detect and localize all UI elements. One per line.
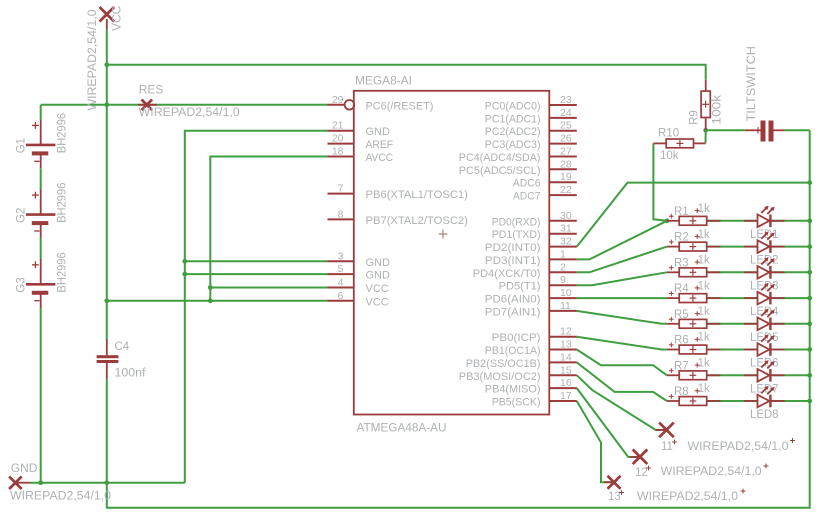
LED LED6 (744, 334, 785, 356)
wire R10 left to R1 node (653, 143, 667, 220)
svg-text:G3: G3 (16, 277, 28, 292)
wire R8 to LED8 (707, 400, 758, 402)
wire R3 to LED3 (707, 271, 758, 273)
svg-text:PD7(AIN1): PD7(AIN1) (485, 306, 541, 318)
svg-text:100k: 100k (712, 95, 724, 125)
wire AVCC riser (210, 157, 327, 301)
wire battery top drop (40, 105, 42, 120)
svg-text:GND: GND (366, 126, 391, 138)
svg-text:WIREPAD2,54/1,0: WIREPAD2,54/1,0 (139, 107, 240, 119)
wire PD3 to R1 (577, 221, 667, 260)
svg-text:WIREPAD2,54/1,0: WIREPAD2,54/1,0 (688, 441, 789, 453)
IC U1 right pin numbers (560, 94, 572, 402)
wire VCC vertical from pad to C4 (106, 30, 108, 339)
wire PB2 to R8 (577, 362, 667, 401)
svg-text:ATMEGA48A-AU: ATMEGA48A-AU (357, 423, 447, 435)
resistor R9 100k (701, 80, 710, 131)
IC U1 right pin stubs (549, 105, 577, 401)
IC U1 left pin numbers (332, 94, 344, 302)
svg-text:13: 13 (608, 491, 621, 503)
svg-text:AVCC: AVCC (366, 152, 394, 164)
wire pin 6 VCC horizontal (107, 300, 328, 302)
junction (104, 298, 109, 303)
svg-text:PB3(MOSI/OC2): PB3(MOSI/OC2) (459, 371, 541, 383)
resistor R5 1k (667, 319, 721, 328)
wire R2 to LED2 (707, 246, 758, 248)
svg-text:1k: 1k (698, 203, 710, 215)
svg-text:PC1(ADC1): PC1(ADC1) (485, 113, 541, 125)
junction (807, 321, 812, 326)
resistor R2 1k (667, 242, 721, 251)
svg-text:LED8: LED8 (750, 409, 779, 421)
svg-text:BH2996: BH2996 (57, 113, 69, 153)
svg-text:1k: 1k (698, 358, 710, 370)
svg-text:1k: 1k (698, 229, 710, 241)
svg-text:MEGA8-AI: MEGA8-AI (355, 76, 412, 88)
svg-text:20: 20 (332, 133, 344, 145)
wire PB4 to pad 12 (577, 388, 640, 457)
svg-text:PB1(OC1A): PB1(OC1A) (485, 345, 541, 357)
svg-text:C4: C4 (115, 341, 130, 353)
svg-text:WIREPAD2,54/1,0: WIREPAD2,54/1,0 (637, 491, 738, 503)
resistor R8 1k (667, 397, 721, 406)
svg-text:PD2(INT0): PD2(INT0) (485, 242, 541, 254)
svg-text:7: 7 (338, 183, 344, 195)
wire RES / reset net (41, 104, 328, 106)
svg-text:1k: 1k (698, 280, 710, 292)
svg-text:R4: R4 (674, 283, 689, 295)
wire tilt switch right (785, 129, 810, 131)
svg-text:32: 32 (560, 236, 572, 248)
svg-text:28: 28 (560, 158, 572, 170)
svg-text:14: 14 (560, 351, 572, 363)
junction (807, 373, 812, 378)
wire pin 4 VCC (210, 287, 327, 289)
wire LED8 to bus (771, 400, 809, 402)
svg-text:R2: R2 (674, 232, 689, 244)
svg-text:WIREPAD2,54/1,0: WIREPAD2,54/1,0 (661, 466, 762, 478)
wire pin 5 GND (185, 273, 328, 275)
svg-text:VCC: VCC (366, 296, 389, 308)
svg-text:PB2(SS/OC1B): PB2(SS/OC1B) (466, 358, 541, 370)
LED LED5 (744, 309, 785, 331)
junction (104, 480, 109, 485)
wire tilt switch left (706, 129, 745, 131)
svg-text:18: 18 (332, 146, 344, 158)
resistor R10 10k (653, 139, 705, 148)
wire R5 to LED5 (707, 323, 758, 325)
junction (665, 218, 670, 223)
junction (208, 285, 213, 290)
wirepad RES (138, 100, 157, 111)
wire PB1 to R7 (577, 350, 667, 376)
LED LED1 (744, 206, 785, 228)
junction (703, 128, 708, 133)
svg-text:1k: 1k (698, 306, 710, 318)
svg-text:PC3(ADC3): PC3(ADC3) (485, 139, 541, 151)
svg-text:GND: GND (11, 461, 38, 475)
IC U1 left pin stubs (328, 100, 355, 301)
svg-text:VCC: VCC (110, 5, 124, 31)
svg-text:PD1(TXD): PD1(TXD) (492, 229, 541, 241)
wire PB0 to R6 (577, 337, 667, 350)
wire LED1 to bus (771, 220, 809, 222)
junction (104, 62, 109, 67)
svg-text:6: 6 (338, 290, 344, 302)
resistor R4 1k (667, 294, 721, 303)
wirepad GND (9, 476, 30, 489)
battery G1 BH2996 (26, 120, 56, 169)
svg-text:ADC6: ADC6 (513, 178, 541, 190)
svg-text:8: 8 (338, 208, 344, 220)
svg-text:13: 13 (560, 339, 572, 351)
svg-text:G2: G2 (16, 208, 28, 223)
svg-text:19: 19 (560, 171, 572, 183)
svg-text:5: 5 (338, 263, 344, 275)
wire VCC top rail (107, 65, 706, 80)
svg-text:WIREPAD2,54/1,0: WIREPAD2,54/1,0 (10, 491, 111, 503)
LED LED8 (744, 386, 785, 408)
svg-text:RES: RES (139, 83, 164, 97)
svg-text:R10: R10 (658, 128, 679, 140)
wirepad 11 (656, 423, 674, 438)
wire LED7 to bus (771, 374, 809, 376)
wire LED2 to bus (771, 246, 809, 248)
svg-text:R9: R9 (689, 110, 701, 125)
wire LED4 to bus (771, 297, 809, 299)
svg-text:R7: R7 (674, 360, 689, 372)
svg-text:27: 27 (560, 146, 572, 158)
svg-text:R3: R3 (674, 257, 689, 269)
svg-text:G1: G1 (16, 138, 28, 153)
wire LED3 to bus (771, 271, 809, 273)
svg-text:25: 25 (560, 120, 572, 132)
svg-text:PD4(XCK/T0): PD4(XCK/T0) (473, 268, 541, 280)
wire LED5 to bus (771, 323, 809, 325)
svg-text:1k: 1k (698, 255, 710, 267)
IC U1 left pin names (366, 100, 468, 308)
resistor R1 1k (667, 216, 721, 225)
svg-text:R1: R1 (674, 206, 689, 218)
junction (208, 298, 213, 303)
junction (807, 399, 812, 404)
svg-text:10k: 10k (660, 150, 679, 162)
LED LED7 (744, 360, 785, 382)
svg-text:11: 11 (661, 441, 673, 453)
svg-text:100nf: 100nf (115, 368, 147, 380)
wirepad 12 (630, 450, 647, 465)
IC U1 ATMEGA48A-AU box (354, 91, 550, 415)
svg-text:AREF: AREF (366, 139, 394, 151)
svg-text:9: 9 (560, 274, 566, 286)
svg-text:PD0(RXD): PD0(RXD) (492, 216, 541, 228)
svg-text:PC5(ADC5/SCL): PC5(ADC5/SCL) (459, 165, 541, 177)
wire PD7 to R5 (577, 311, 667, 324)
svg-text:PB0(ICP): PB0(ICP) (492, 332, 541, 344)
IC U1 right pin names (459, 101, 541, 409)
wire GND bottom horizontal (30, 482, 185, 484)
wire INT0 net y182 (577, 183, 810, 247)
wire R6 to LED6 (707, 349, 758, 351)
wire PD6 to R4 (577, 297, 667, 299)
svg-text:2: 2 (560, 261, 566, 273)
junction (38, 480, 43, 485)
svg-text:4: 4 (338, 277, 344, 289)
svg-text:PB5(SCK): PB5(SCK) (492, 397, 541, 409)
resistor R3 1k (667, 268, 721, 277)
tilt switch TILTSWITCH (745, 121, 785, 142)
wire PB3 to pad 11 (577, 375, 667, 430)
svg-text:PC2(ADC2): PC2(ADC2) (485, 126, 541, 138)
svg-text:1k: 1k (698, 383, 710, 395)
junction (182, 272, 187, 277)
svg-text:PC4(ADC4/SDA): PC4(ADC4/SDA) (459, 152, 541, 164)
svg-text:VCC: VCC (366, 283, 389, 295)
svg-text:PB6(XTAL1/TOSC1): PB6(XTAL1/TOSC1) (366, 189, 468, 201)
LED LED2 (744, 231, 785, 253)
capacitor C4 (97, 339, 119, 379)
wire R10 right riser (705, 130, 707, 143)
battery G3 BH2996 (26, 259, 56, 308)
resistor R7 1k (667, 371, 721, 380)
svg-text:12: 12 (560, 326, 572, 338)
junction (807, 296, 812, 301)
svg-text:WIREPAD2,54/1,0: WIREPAD2,54/1,0 (87, 10, 99, 111)
svg-text:PB7(XTAL2/TOSC2): PB7(XTAL2/TOSC2) (366, 215, 468, 227)
svg-text:PD6(AIN0): PD6(AIN0) (485, 294, 541, 306)
wire battery bottom to GND rail (40, 308, 42, 483)
svg-text:30: 30 (560, 210, 572, 222)
svg-text:10: 10 (560, 287, 572, 299)
svg-text:16: 16 (560, 377, 572, 389)
svg-text:22: 22 (560, 184, 572, 196)
wire PB5 to pad 13 (577, 401, 614, 482)
wire bottom GND bus (107, 130, 810, 508)
svg-text:PC6(/RESET): PC6(/RESET) (366, 100, 434, 112)
wire PD4 to R2 (577, 247, 667, 273)
svg-text:R5: R5 (674, 309, 689, 321)
svg-text:ADC7: ADC7 (513, 191, 541, 203)
junction (807, 347, 812, 352)
wire R1 to LED1 (707, 220, 758, 222)
wirepad 13 (604, 476, 621, 489)
svg-text:GND: GND (366, 257, 391, 269)
wire PD5 to R3 (577, 272, 667, 285)
junction (807, 218, 812, 223)
svg-text:12: 12 (635, 467, 648, 479)
wire pin 3 GND (185, 260, 328, 262)
svg-text:TILTSWITCH: TILTSWITCH (746, 46, 758, 122)
svg-text:GND: GND (366, 270, 391, 282)
LED LED3 (744, 257, 785, 279)
svg-text:31: 31 (560, 223, 572, 235)
resistor R6 1k (667, 345, 721, 354)
svg-text:17: 17 (560, 390, 572, 402)
wire battery G1-G2 link (40, 168, 42, 189)
svg-text:R8: R8 (674, 386, 689, 398)
wire C4 bottom to GND rail (106, 379, 108, 483)
svg-text:21: 21 (332, 120, 344, 132)
svg-text:R6: R6 (674, 335, 689, 347)
svg-text:BH2996: BH2996 (57, 252, 69, 292)
battery G2 BH2996 (26, 189, 56, 238)
junction (104, 102, 109, 107)
svg-text:1: 1 (560, 248, 566, 260)
svg-text:PB4(MISO): PB4(MISO) (485, 384, 541, 396)
IC U1 origin cross (439, 230, 448, 239)
junction (807, 180, 812, 185)
svg-text:29: 29 (332, 94, 344, 106)
wire GND riser to pins 21/3/5 (185, 131, 328, 483)
svg-text:24: 24 (560, 107, 572, 119)
junction (807, 270, 812, 275)
svg-text:11: 11 (560, 300, 571, 312)
wirepad VCC (100, 7, 115, 30)
svg-text:PC0(ADC0): PC0(ADC0) (485, 101, 541, 113)
svg-text:BH2996: BH2996 (57, 183, 69, 223)
wire R7 to LED7 (707, 374, 758, 376)
svg-text:3: 3 (338, 250, 344, 262)
svg-text:PD3(INT1): PD3(INT1) (485, 255, 541, 267)
svg-text:26: 26 (560, 133, 572, 145)
LED LED4 (744, 283, 785, 305)
svg-text:15: 15 (560, 364, 572, 376)
junction (807, 244, 812, 249)
wire battery G2-G3 link (40, 238, 42, 259)
wire LED6 to bus (771, 349, 809, 351)
svg-text:23: 23 (560, 94, 572, 106)
junction (182, 259, 187, 264)
wire R4 to LED4 (707, 297, 758, 299)
svg-text:PD5(T1): PD5(T1) (499, 281, 541, 293)
svg-text:1k: 1k (698, 332, 710, 344)
